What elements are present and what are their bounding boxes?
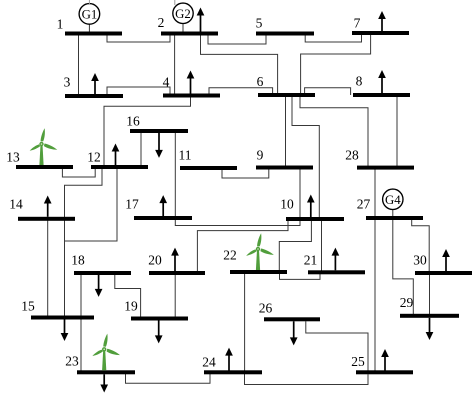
svg-text:10: 10 [280,197,294,212]
svg-text:22: 22 [223,248,237,263]
svg-text:17: 17 [125,197,139,212]
svg-text:14: 14 [9,197,23,212]
svg-text:1: 1 [57,17,64,32]
svg-text:20: 20 [148,253,162,268]
svg-text:12: 12 [87,150,101,165]
svg-text:26: 26 [259,301,273,316]
svg-text:30: 30 [413,253,427,268]
svg-text:19: 19 [124,299,138,314]
svg-text:29: 29 [400,295,414,310]
svg-text:23: 23 [65,354,79,369]
svg-text:7: 7 [354,16,361,31]
svg-text:18: 18 [71,253,85,268]
svg-text:16: 16 [126,114,140,129]
svg-text:9: 9 [257,148,264,163]
svg-text:25: 25 [351,354,365,369]
svg-text:6: 6 [257,74,264,89]
svg-text:8: 8 [356,74,363,89]
svg-text:2: 2 [158,15,165,30]
svg-text:28: 28 [345,148,359,163]
svg-text:11: 11 [179,148,192,163]
svg-text:G4: G4 [385,193,401,207]
svg-text:13: 13 [6,150,20,165]
svg-text:3: 3 [64,75,71,90]
svg-text:G2: G2 [175,7,191,21]
svg-text:5: 5 [256,16,263,31]
svg-text:4: 4 [163,75,170,90]
svg-text:24: 24 [202,355,216,370]
svg-text:27: 27 [357,197,371,212]
svg-text:15: 15 [21,299,35,314]
svg-text:21: 21 [304,253,318,268]
svg-text:G1: G1 [82,7,98,21]
